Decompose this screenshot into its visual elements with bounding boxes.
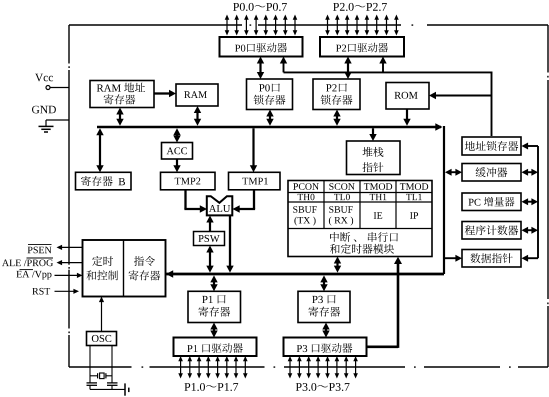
arrow bus - P0 latch xyxy=(269,116,271,120)
label IE xyxy=(374,212,382,218)
block buffer xyxy=(462,164,521,182)
block OSC xyxy=(87,332,117,346)
arrow program counter - right bus xyxy=(527,229,532,231)
arrow bus - P3 register xyxy=(323,281,325,285)
lower bus wire xyxy=(166,273,444,276)
block P3 driver xyxy=(284,338,367,357)
P3 port pin arrows xyxy=(289,361,291,374)
label P2.0-P2.7 xyxy=(333,3,387,11)
arrow P3 register - P3 driver xyxy=(325,329,327,332)
label RST xyxy=(32,288,50,295)
arrow bus - P1 register xyxy=(213,281,215,285)
arrow buffer - right bus xyxy=(527,171,532,173)
label SBUF TX xyxy=(293,206,317,213)
right bus wire xyxy=(537,146,539,258)
signal ALE/PROG wire out xyxy=(61,262,83,264)
block stack pointer xyxy=(347,141,401,175)
capacitor C1 xyxy=(87,382,98,384)
arrow bus - RAM address register xyxy=(119,114,121,120)
arrow right bus into data pointer xyxy=(526,257,538,259)
label EA/Vpp xyxy=(16,271,51,280)
block timing-control and instruction register xyxy=(83,240,166,297)
crystal xyxy=(90,375,98,377)
arrow RAM address register to RAM xyxy=(154,92,170,94)
block interrupt/serial/timer module table xyxy=(288,181,432,257)
wire TMP2 to ALU xyxy=(184,190,186,209)
lower bus arrowhead into instruction register xyxy=(166,270,173,278)
block P1 driver xyxy=(174,338,257,357)
capacitor C2 xyxy=(107,382,118,384)
label TH1 xyxy=(370,194,387,200)
arrow bus to TMP1 xyxy=(252,128,254,166)
wire OSC to timing control xyxy=(101,301,103,332)
block ROM xyxy=(386,83,429,110)
block data pointer xyxy=(462,250,521,268)
ground symbol crystal xyxy=(124,383,126,395)
wire XTAL2 xyxy=(111,346,113,383)
ground symbol xyxy=(46,119,69,121)
label TL1 xyxy=(406,194,422,200)
block RAM address register xyxy=(90,81,154,108)
label TL0 xyxy=(334,194,350,200)
arrow ROM to bus xyxy=(406,109,408,120)
upper bus right arrowhead into vertical bus xyxy=(435,123,442,131)
arrow bus - ACC xyxy=(176,134,178,136)
arrow PC incrementer - right bus xyxy=(527,201,532,203)
block TMP2 xyxy=(161,172,216,190)
arrow PSW to ALU xyxy=(209,222,211,232)
wire TMP1 to ALU xyxy=(253,190,255,209)
block program counter xyxy=(462,222,521,240)
label P1.0-P1.7 xyxy=(184,383,238,391)
label instruction register xyxy=(134,256,155,266)
wire address latch to top rail xyxy=(491,72,493,136)
arrow vertical bus into data pointer xyxy=(445,257,457,259)
stub arrow into P2 driver xyxy=(382,63,384,73)
label P3.0-P3.7 xyxy=(296,383,350,391)
label timing control xyxy=(92,256,113,266)
wire ALU to lower bus xyxy=(229,216,231,267)
label module line1 xyxy=(330,232,398,242)
block P0 latch xyxy=(247,79,293,110)
wire top address rail xyxy=(284,71,493,73)
block PC incrementer xyxy=(462,193,521,211)
label IP xyxy=(410,212,418,218)
Vcc label xyxy=(35,74,53,82)
wire XTAL1 xyxy=(89,346,91,383)
wire crystal ground xyxy=(90,388,125,390)
block register B xyxy=(76,172,132,190)
arrow vertical bus - buffer xyxy=(451,171,457,173)
label TH0 xyxy=(298,194,315,200)
block P1 register xyxy=(188,291,241,322)
block ACC xyxy=(162,143,193,160)
arrow bus - P2 latch xyxy=(336,116,338,120)
label TMOD cell4 xyxy=(400,183,428,190)
block P3 register xyxy=(298,291,350,322)
Vcc terminal xyxy=(46,86,50,90)
P1 port pin arrows xyxy=(180,361,182,374)
block RAM xyxy=(176,84,218,106)
outer frame xyxy=(69,24,548,26)
op-amp style ALU box xyxy=(207,196,233,215)
label PCON xyxy=(293,183,319,190)
block P2 driver xyxy=(320,37,404,57)
vertical bus wire right side xyxy=(443,126,445,274)
label SCON xyxy=(329,183,354,190)
label P0.0-P0.7 xyxy=(233,3,287,11)
label PSEN xyxy=(28,247,52,254)
wire P3 driver to module xyxy=(366,345,398,348)
arrow bus - RAM xyxy=(196,112,198,120)
arrow ACC to TMP2 xyxy=(176,159,178,166)
signal PSEN wire out xyxy=(61,246,83,248)
arrow right bus into address latch xyxy=(526,145,538,147)
GND label xyxy=(32,106,56,114)
label SBUF RX xyxy=(329,206,353,213)
signal EA/Vpp wire in xyxy=(55,274,79,276)
arrow P0 driver - P0 latch xyxy=(259,63,261,74)
arrow P1 register - P1 driver xyxy=(213,329,215,332)
main upper bus wire xyxy=(97,126,441,129)
arrow bus - stack pointer xyxy=(372,128,374,135)
wire address to ROM xyxy=(435,95,492,97)
arrow bus - module xyxy=(336,263,338,267)
block P0 driver xyxy=(220,37,303,57)
block P2 latch xyxy=(313,79,360,110)
block TMP1 xyxy=(229,172,281,190)
P2 port pin arrows xyxy=(327,19,329,31)
P0 port pin arrows xyxy=(226,19,228,31)
block address latch xyxy=(462,137,521,155)
frame dash-dot breaks xyxy=(68,24,549,368)
stub arrow into P0 driver xyxy=(283,63,285,73)
arrow bus - register B xyxy=(99,134,101,166)
signal RST wire in xyxy=(55,290,75,292)
arrow bus - PSW xyxy=(209,252,211,267)
label module line2 xyxy=(330,244,394,254)
block PSW xyxy=(194,232,225,246)
arrow P2 driver - P2 latch xyxy=(347,63,349,74)
label ALE/PROG xyxy=(2,260,53,267)
label TMOD cell3 xyxy=(364,183,392,190)
